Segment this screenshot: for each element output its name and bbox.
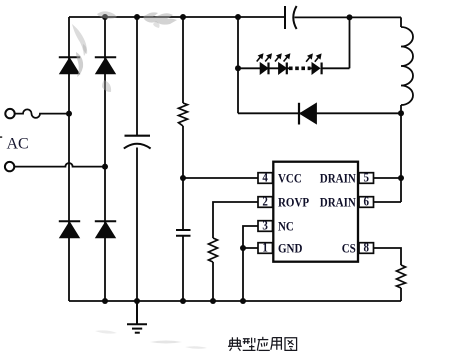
svg-text:DRAIN: DRAIN [320,194,356,209]
wire top rail right of C3 [295,16,402,18]
scan smudge bottom left of caption [150,341,182,344]
wire LED row [238,67,350,69]
wire CS resistor lower [400,288,402,301]
wire left bridge column [68,17,70,301]
wire second bridge column [104,17,106,301]
node AC neutral junction [102,164,108,170]
diode D2 bridge top-right [95,57,116,74]
svg-text:5: 5 [364,170,370,185]
svg-text:DRAIN: DRAIN [320,170,356,185]
caption char 用 [271,338,282,350]
node rail / ground [134,298,140,304]
scan smudge near D2 lower [102,80,111,92]
svg-text:2: 2 [262,194,268,209]
node top rail / R1 [180,14,186,20]
svg-text:AC: AC [7,135,29,152]
svg-text:GND: GND [278,240,303,255]
scan smudge near D1 [76,52,83,77]
pin 3 box [258,221,273,232]
wire inductor column [374,17,402,202]
caption char 应 [257,337,270,351]
wire pin8 CS feed [374,248,402,265]
wire LED string right riser [349,17,351,68]
wire pin2 ROVP feed [213,202,258,238]
node top rail / LED branch [235,14,241,20]
LED string led2 [279,63,287,75]
LED string led1 [260,63,268,75]
LED string led3 [312,63,322,75]
svg-text:1: 1 [262,240,268,255]
scan tick left edge [0,136,2,138]
node rail / GND column [240,298,246,304]
IC U1 body [273,162,358,262]
svg-text:3: 3 [262,218,268,233]
node rail / C2 [180,298,186,304]
svg-text:4: 4 [262,170,268,185]
pin 5 box [359,173,374,184]
wire pin3 NC tie [243,226,258,248]
wire bottom ground rail [69,300,401,302]
node diode/inductor junction [398,110,404,116]
inductor L1 [401,27,413,105]
terminal AC top [5,109,14,118]
wire pin1 GND feed [243,248,258,301]
capacitor C3 output [285,6,297,29]
caption 典型应用图 [228,337,297,351]
svg-text:ROVP: ROVP [278,194,309,209]
wire pin5 to drain node [374,177,402,179]
node top rail / LED riser [347,14,353,20]
AC neutral lead with crossover hop [15,163,105,167]
resistor R3 current sense [397,265,406,288]
capacitor C1 bulk electrolytic [124,136,151,149]
node LED string left [235,65,241,71]
node VCC junction [180,175,186,181]
svg-text:VCC: VCC [278,170,302,185]
LED string led2 arrows [275,53,290,61]
scan smudge on top rail at D2 column [97,11,117,18]
node NC-GND tie [240,245,246,251]
terminal AC bottom [5,162,14,171]
pin 8 box [359,243,374,254]
scan smudge on top rail between C1 and R1 [72,11,207,348]
node rail / R2 [210,298,216,304]
capacitor C2 VCC [176,230,191,236]
diode D5 freewheel [299,103,316,125]
node top rail / C1 [134,14,140,20]
AC live lead with fuse squiggle [15,109,69,118]
pin 2 box [258,197,273,208]
diode D3 bridge bottom-left [59,221,80,238]
LED string led3 arrows [306,53,322,61]
caption char 图 [285,338,297,351]
wire bulk capacitor column top [136,17,138,136]
svg-text:6: 6 [364,194,370,209]
diode D1 bridge top-left [59,57,80,74]
LED string series dashes [289,67,311,71]
wire freewheel diode row [238,112,401,114]
wire top rail left of C3 [69,16,285,18]
wire LED branch left column [237,17,239,113]
caption char 型 [243,338,256,351]
svg-text:CS: CS [342,240,356,255]
node rail / D2 column [102,298,108,304]
wire VCC resistor column [182,17,184,301]
node AC live junction [66,111,72,117]
resistor R1 startup [179,103,188,126]
svg-text:8: 8 [364,240,370,255]
node top rail / D2 [102,14,108,20]
pin 6 box [359,197,374,208]
node drain junction [398,175,404,181]
pin 4 box [258,173,273,184]
LED string led1 arrows [257,53,272,61]
resistor R2 ROVP [209,238,218,262]
diode D4 bridge bottom-right [95,221,116,238]
wire pin4 VCC feed [183,177,258,179]
caption char 典 [228,337,242,351]
pin 1 box [258,243,273,254]
ground symbol [127,301,147,333]
wire bulk capacitor column bottom [136,148,138,302]
wire ROVP resistor lower [212,262,214,301]
svg-text:NC: NC [278,218,294,233]
